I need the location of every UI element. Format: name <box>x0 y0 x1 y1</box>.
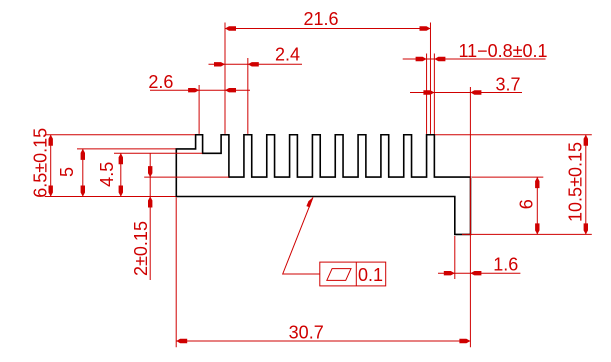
arrows 6 <box>535 177 539 188</box>
dimension line 11-0.8 <box>403 58 546 60</box>
extension line fin2 centre (2.4) <box>247 58 249 134</box>
extension line fin10 right (0.8) <box>433 54 435 134</box>
svg-text:5: 5 <box>57 167 77 177</box>
extension line fin1 centre (21.6/2.4/2.6) <box>224 23 226 134</box>
arrows 6.5 <box>49 135 53 146</box>
svg-text:30.7: 30.7 <box>289 322 324 342</box>
dimension line 1.6 <box>438 272 520 274</box>
dimension line 2.6 <box>150 89 250 91</box>
dimension line 10.5±0.15 <box>585 135 587 235</box>
extension line fin10 centre (21.6) <box>429 23 431 134</box>
svg-text:0.1: 0.1 <box>358 265 383 285</box>
dimension line 30.7 <box>176 340 470 342</box>
extension line 5 top (ledge) <box>77 148 176 150</box>
extension line right bottom (foot) <box>462 233 592 235</box>
extension line 6 top (top surface, right) <box>472 176 543 178</box>
svg-text:4.5: 4.5 <box>97 162 117 187</box>
arrows 2.6 (outside) <box>188 88 199 92</box>
arrows 4.5 <box>119 153 123 164</box>
leader arrow <box>306 197 313 207</box>
arrows 5 <box>81 149 85 160</box>
dimension line 5 <box>82 149 84 197</box>
feature control frame box <box>320 262 386 286</box>
svg-text:11−0.8±0.1: 11−0.8±0.1 <box>458 41 547 61</box>
extension line 4.5 top (step) <box>114 152 202 154</box>
extension line 2±0.15 top (valley) <box>144 176 229 178</box>
dimension line 2.4 <box>209 63 303 65</box>
heatsink extrusion profile outline <box>176 135 470 235</box>
svg-text:2±0.15: 2±0.15 <box>131 221 151 276</box>
svg-text:21.6: 21.6 <box>303 9 338 29</box>
svg-text:6.5±0.15: 6.5±0.15 <box>31 128 51 198</box>
svg-text:1.6: 1.6 <box>493 255 518 275</box>
svg-text:10.5±0.15: 10.5±0.15 <box>566 142 586 222</box>
extension line foot left (1.6) <box>454 236 456 279</box>
dimension line 21.6 <box>225 28 430 30</box>
extension line plateau centre (2.6) <box>198 85 200 134</box>
dimension line 3.7 <box>410 92 522 94</box>
svg-text:2.6: 2.6 <box>148 72 173 92</box>
arrows 1.6 (outside) <box>444 271 455 275</box>
leader line from feature control frame to bottom face <box>283 197 320 274</box>
dimension line 6 <box>536 177 538 234</box>
dimension line 4.5 <box>120 153 122 196</box>
arrows 3.7 (outside) <box>423 90 434 94</box>
arrows 10.5 <box>584 135 588 146</box>
arrows 2.4 (outside) <box>214 62 225 66</box>
dimension line 2±0.15 <box>149 153 151 280</box>
extension line fin10 left (0.8) <box>426 54 428 134</box>
svg-text:3.7: 3.7 <box>495 75 520 95</box>
extension line part left (30.7) <box>175 198 177 348</box>
dimension line 6.5±0.15 <box>50 135 52 197</box>
extension line right edge (3.7/1.6/30.7) <box>469 87 471 347</box>
arrows 11-0.8 (outside) <box>416 57 427 61</box>
extension line left bottom face <box>45 196 176 198</box>
svg-text:6: 6 <box>517 199 537 209</box>
svg-text:2.4: 2.4 <box>275 44 300 64</box>
arrows 21.6 <box>225 26 236 30</box>
extension line 6.5 top (to plateau corner) <box>45 134 195 136</box>
arrows 30.7 <box>176 339 187 343</box>
flatness symbol (parallelogram) <box>327 269 351 281</box>
arrows 2±0.15 (outside) <box>148 166 152 177</box>
extension line 10.5 top (fin top, right) <box>435 134 592 136</box>
